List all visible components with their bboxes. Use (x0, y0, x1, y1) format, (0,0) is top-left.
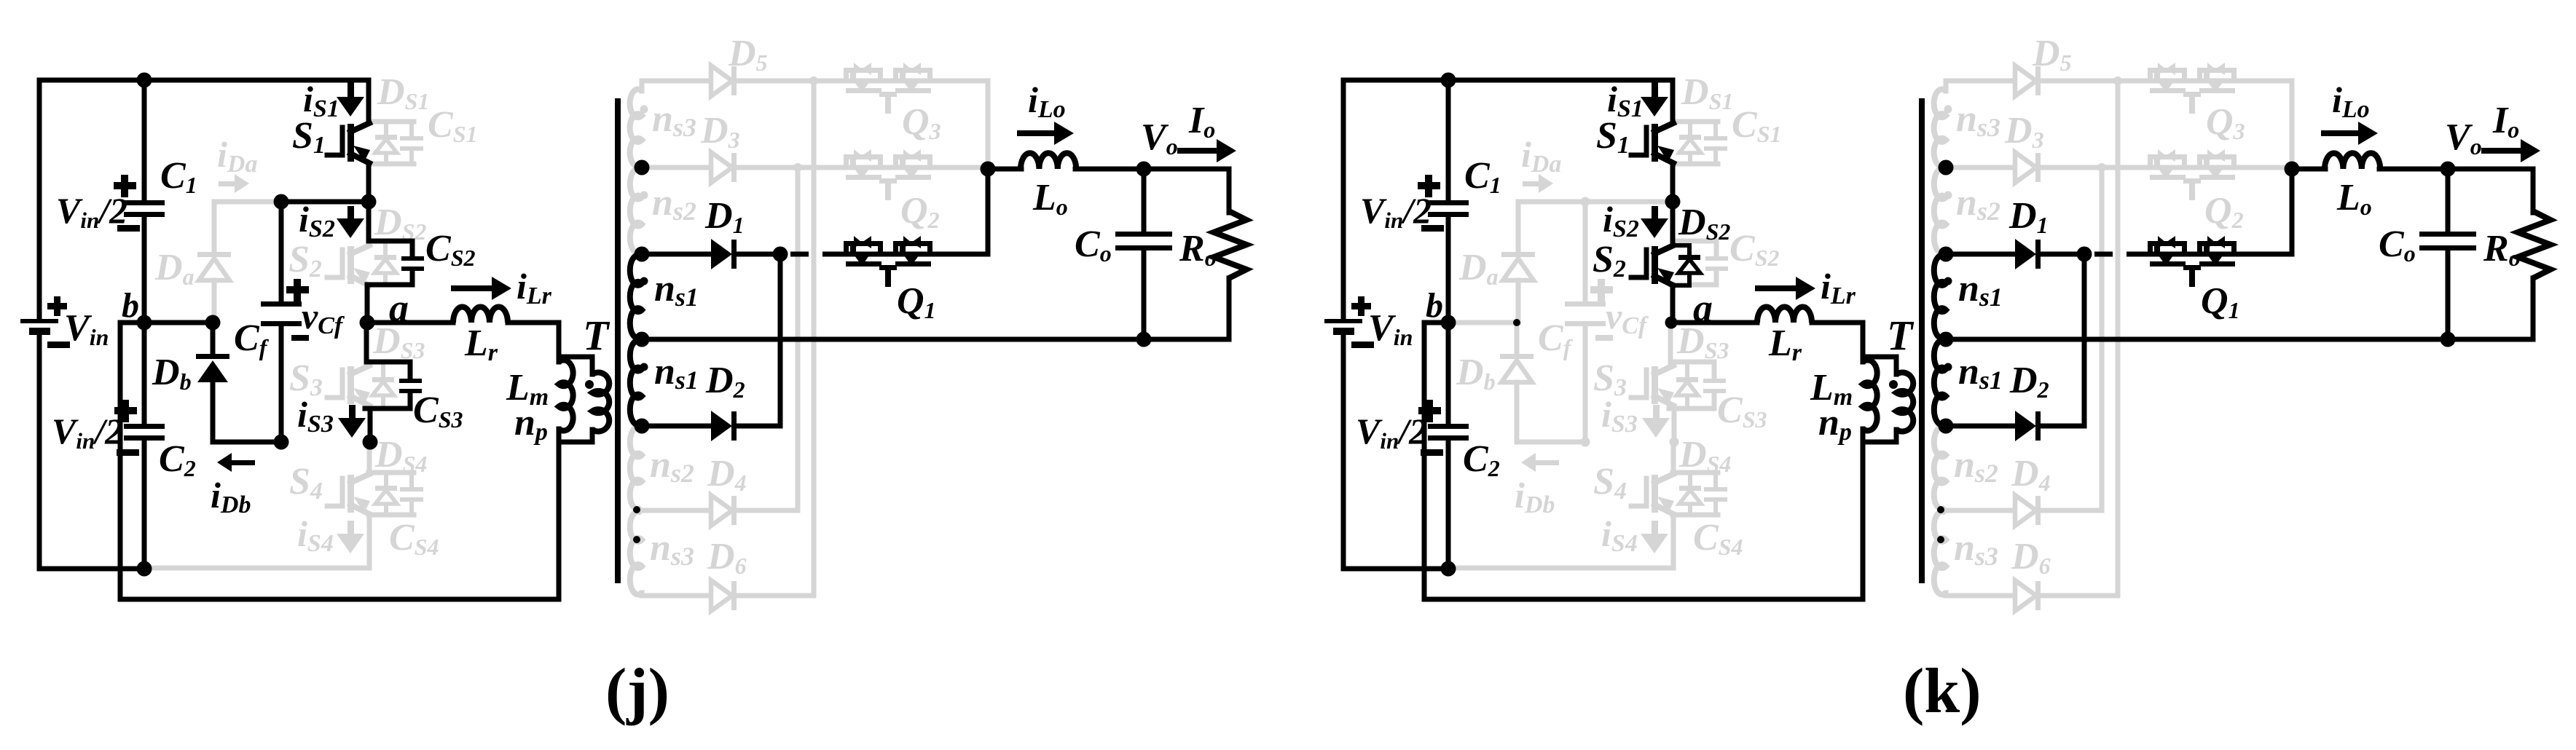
label Db j (152, 352, 192, 395)
label C2 k (1463, 438, 1500, 481)
label Q1 k (2201, 280, 2240, 323)
current arrow iS3 j (338, 405, 366, 438)
wire gray bus D5-D6 j (812, 81, 817, 596)
diode Da j (197, 202, 281, 323)
current arrow iS2 j (337, 206, 364, 238)
transistor S3 j (327, 366, 370, 406)
inductor Lr j (453, 307, 508, 323)
label T j (583, 312, 610, 359)
node center tap k (1939, 332, 1954, 347)
wire D2 to D1 vertical k (2082, 254, 2087, 426)
polarity dot ns1 lower j (640, 363, 648, 371)
transistor S2 j (327, 245, 370, 285)
current arrow iS4 k (1641, 521, 1668, 553)
wire Vo to Ro j (1144, 169, 1229, 213)
diode Db j (196, 323, 281, 442)
wire to Lo k (2292, 167, 2325, 172)
label Ro j (1179, 228, 1217, 271)
wire Ro bottom k (2531, 278, 2536, 339)
node ns3-ns2 junction j (635, 160, 650, 175)
wire D5 row j (642, 79, 988, 84)
label Lm k (1810, 367, 1853, 411)
wire D6 row j (642, 593, 814, 599)
label ns2 bottom j (650, 444, 694, 488)
wire C1 to b k (1446, 216, 1451, 323)
label D3 j (700, 110, 740, 153)
wire Q1 row j (843, 169, 988, 254)
label CS2 k (1729, 228, 1779, 271)
label ns3 bottom k (1954, 527, 1998, 571)
wire D4 row k (1946, 508, 2102, 513)
label b k (1426, 286, 1443, 325)
snubber cell DS1 CS1 j (369, 122, 423, 164)
label Q2 k (2204, 190, 2244, 233)
label ns3 bottom j (650, 527, 694, 571)
wire C1 branch upper k (1446, 80, 1451, 202)
wire S3 drain k (1668, 323, 1673, 362)
label ns2 bottom k (1954, 444, 1998, 488)
wire left rail upper k (1341, 80, 1346, 319)
transistor S1 k (1631, 123, 1674, 202)
current arrow iLo j (1017, 122, 1074, 145)
battery Vin k (1324, 296, 1374, 348)
label CS3 k (1717, 390, 1767, 433)
label CS1 j (428, 104, 477, 147)
svg-text:(k): (k) (1903, 656, 1982, 727)
wire S4 source k (1448, 514, 1673, 568)
wire b row left k (1424, 320, 1448, 325)
current arrow iS3 k (1642, 405, 1670, 438)
label ns1 upper k (1958, 268, 2003, 312)
switch Q3 k (2148, 63, 2237, 114)
label iS3 k (1601, 394, 1638, 438)
wire D2 to D1 vertical j (778, 254, 783, 426)
node Q2 left junction j (793, 163, 802, 172)
polarity dot ns1 lower k (1944, 363, 1952, 371)
label C2 j (159, 438, 196, 481)
label iS1 j (303, 79, 339, 122)
wire C2 branch k (1446, 323, 1451, 425)
label CS4 j (389, 517, 439, 560)
switch Q1 k (2148, 236, 2237, 287)
label Q3 k (2206, 101, 2245, 144)
label DS3 k (1676, 320, 1729, 363)
wire top rail k (1343, 80, 1673, 123)
node D1 D2 junction k (2077, 247, 2092, 262)
transistor S3 k (1631, 366, 1674, 406)
wire Cf node row j (281, 200, 369, 205)
node S1 source j (361, 194, 377, 210)
label Lr j (464, 323, 498, 366)
node S3 source k (1670, 438, 1679, 447)
wire C2 to bottom j (142, 440, 147, 569)
label CS1 k (1732, 104, 1781, 147)
svg-text:T: T (1887, 312, 1915, 359)
transformer core k (1919, 98, 1925, 583)
label Q1 j (897, 280, 936, 323)
diode Da k (1501, 202, 1585, 323)
label D5 j (728, 33, 768, 76)
label ns2 top j (652, 182, 696, 226)
label Vin/2 upper j (56, 190, 127, 233)
label D3 k (2004, 110, 2044, 153)
current arrow Io k (2481, 139, 2540, 162)
capacitor Co j (1115, 169, 1172, 339)
wire S2 drain k (1670, 202, 1676, 245)
node ns3-ns2 junction k (1939, 160, 1954, 175)
label Io j (1188, 100, 1215, 143)
wire to Lo j (988, 167, 1021, 172)
node Vo j (1136, 162, 1152, 177)
label Vo j (1141, 117, 1178, 159)
node junction bottom C2 j (137, 561, 152, 577)
label Vin/2 lower k (1356, 411, 1427, 454)
label b j (122, 286, 139, 325)
node ns1 top junction j (635, 247, 650, 262)
switch Q2 j (844, 149, 932, 200)
node Cf top j (274, 194, 289, 210)
wire C2 to bottom k (1446, 440, 1451, 569)
node Db top j (205, 315, 221, 331)
winding ns3 bottom j (630, 511, 642, 596)
label Db k (1456, 352, 1496, 395)
diode D3 j (711, 152, 737, 183)
label S4 j (289, 461, 323, 505)
label iLr k (1821, 266, 1856, 309)
current arrow iS2 k (1641, 206, 1668, 238)
node S1 source k (1665, 194, 1681, 210)
winding ns2 top k (1934, 169, 1946, 253)
label Cf k (1538, 317, 1574, 360)
label D2 j (705, 360, 745, 403)
label iS1 k (1607, 79, 1644, 122)
winding ns3 top k (1934, 89, 1946, 166)
diode D3 k (2015, 152, 2041, 183)
label iS3 j (297, 394, 334, 438)
node a j (360, 315, 375, 331)
node Q3 left junction j (809, 76, 818, 85)
snubber cell DS1 CS1 k (1673, 122, 1727, 164)
current arrow iLr j (451, 277, 511, 300)
label np k (1818, 402, 1852, 446)
wire np branch bottom j (559, 430, 592, 442)
wire np branch bottom k (1863, 430, 1896, 442)
label Da j (154, 247, 195, 290)
label S1 k (1596, 115, 1630, 159)
label iS4 k (1601, 513, 1638, 557)
label Lo k (2336, 177, 2372, 220)
wire S4 drain j (367, 442, 372, 474)
wire ns3 top corner j (640, 81, 645, 91)
caption (k) (1903, 656, 1982, 727)
wire C1 to b j (142, 216, 147, 323)
diode Db k (1500, 323, 1585, 442)
node D1 D2 junction j (773, 247, 788, 262)
current arrow iDa j (219, 174, 249, 193)
current arrow Io j (1177, 139, 1236, 162)
wire D4 row j (642, 508, 798, 513)
label iDa k (1521, 134, 1561, 178)
wire C1 branch upper j (142, 80, 147, 202)
wire dashed link j (790, 252, 843, 257)
capacitor C2 j (114, 400, 165, 456)
diode D1 j (711, 239, 737, 269)
label Vin j (64, 307, 109, 350)
label Cf j (234, 317, 270, 360)
node junction top C1 j (137, 73, 152, 88)
wire output return bus k (1946, 337, 2533, 342)
diode D2 j (711, 411, 737, 441)
battery Vin j (20, 296, 70, 348)
polarity dot ns2 bottom k (1937, 506, 1944, 513)
wire Lm to return j (557, 429, 562, 599)
wire D6 row k (1946, 593, 2118, 599)
wire b row left j (120, 320, 144, 325)
label DS2 k (1678, 202, 1730, 245)
caption (j) (605, 656, 669, 727)
label DS1 k (1681, 71, 1733, 114)
wire b to Db k (1448, 320, 1517, 325)
diode D2 k (2015, 411, 2041, 441)
wire ns3 top corner k (1944, 81, 1949, 91)
wire S3 drain j (364, 323, 369, 362)
label vCf j (302, 296, 345, 339)
node Lo input k (2285, 162, 2300, 177)
capacitor CS2 path j (367, 241, 424, 323)
wire left rail lower j (39, 335, 144, 569)
winding ns2 bottom k (1934, 427, 1946, 510)
winding ns1 upper j (630, 256, 642, 339)
diode D6 j (711, 580, 737, 611)
node Db top k (1513, 319, 1520, 326)
label iS4 j (297, 513, 334, 557)
wire D5 row k (1946, 79, 2292, 84)
polarity dot ns2 bottom j (633, 506, 640, 513)
wire Lr to Lm k (1812, 323, 1863, 362)
wire Q1 row k (2147, 169, 2292, 254)
label D2 k (2009, 360, 2049, 403)
label iS2 k (1603, 199, 1639, 242)
diode D4 j (711, 495, 737, 526)
label iDa j (217, 134, 257, 178)
label Da k (1458, 247, 1499, 290)
inductor Lr k (1757, 307, 1812, 323)
label Q3 j (902, 101, 941, 144)
diode D6 k (2015, 580, 2041, 611)
capacitor Cf j (261, 202, 309, 442)
diode DS3 k (1676, 362, 1698, 408)
wire top rail j (39, 80, 369, 123)
winding ns2 top j (630, 169, 642, 253)
wire a to Lr k (1671, 320, 1757, 325)
label Vin/2 upper k (1360, 190, 1432, 233)
wire output return bus j (642, 337, 1229, 342)
label D6 k (2011, 536, 2051, 579)
label iLr j (517, 266, 552, 309)
wire C2 branch j (142, 323, 147, 425)
label CS2 j (425, 228, 475, 271)
node Cf bottom k (1581, 438, 1590, 447)
label Q2 j (900, 190, 940, 233)
wire Vo to Ro k (2448, 169, 2533, 213)
transistor S4 k (1631, 474, 1674, 514)
label DS4 k (1678, 434, 1731, 477)
label ns1 lower j (654, 351, 699, 395)
wire S4 drain k (1671, 442, 1676, 474)
label Io k (2492, 100, 2519, 143)
diode DS2 k (1673, 245, 1700, 285)
svg-text:b: b (122, 286, 139, 325)
node Lo input j (981, 162, 996, 177)
node b j (137, 315, 152, 331)
node Q2 left junction k (2097, 163, 2106, 172)
wire np branch top j (559, 357, 592, 374)
switch Q2 k (2148, 149, 2237, 200)
wire Ro bottom j (1227, 278, 1232, 339)
wire Lo to Vo k (2379, 167, 2448, 172)
current arrow iS1 k (1641, 82, 1668, 117)
label Co k (2379, 224, 2416, 267)
wire Cf node row k (1585, 200, 1673, 205)
label DS4 j (374, 434, 427, 477)
label DS1 j (377, 71, 429, 114)
node Vo k (2440, 162, 2456, 177)
winding ns2 bottom j (630, 427, 642, 510)
capacitor C2 k (1418, 400, 1469, 456)
snubber cell DS4 CS4 k (1673, 473, 1727, 515)
winding np k (1896, 373, 1913, 432)
polarity dot ns2 top j (640, 192, 648, 200)
current arrow iDa k (1523, 174, 1553, 193)
transistor S1 j (327, 123, 370, 202)
current arrow iDb j (217, 453, 255, 472)
transistor S2 k (1631, 245, 1674, 285)
label S1 j (292, 115, 326, 159)
current arrow iDb k (1521, 453, 1559, 472)
inductor Lm j (559, 360, 573, 431)
wire Lm to return k (1861, 429, 1866, 599)
winding np j (592, 373, 609, 432)
polarity dot ns2 top k (1944, 192, 1952, 200)
polarity dot ns3 top k (1944, 106, 1952, 114)
label iLo k (2332, 79, 2370, 123)
inductor Lm k (1863, 360, 1877, 431)
polarity dot np k (1889, 380, 1898, 389)
winding ns3 top j (630, 90, 642, 167)
label DS2 j (374, 202, 426, 245)
wire D1 row k (1946, 252, 2084, 257)
wire Lr to Lm j (508, 323, 559, 362)
label iDb k (1515, 475, 1555, 518)
svg-text:b: b (1426, 286, 1443, 325)
label S3 k (1593, 358, 1627, 401)
node Cf bottom j (274, 435, 289, 450)
diode D4 k (2015, 495, 2041, 526)
winding ns1 upper k (1934, 256, 1946, 339)
label ns3 top k (1956, 98, 2000, 142)
wire gray bus D5-D6 k (2116, 81, 2121, 596)
label S3 j (289, 358, 323, 401)
label D4 k (2011, 453, 2051, 496)
capacitor Co k (2419, 169, 2476, 339)
capacitor Cf k (1565, 202, 1613, 442)
capacitor CS2 path k (1671, 241, 1728, 285)
label ns3 top j (652, 98, 696, 142)
current arrow iS4 j (337, 521, 364, 553)
wire left rail lower k (1343, 335, 1448, 569)
polarity dot ns3 top j (640, 106, 648, 114)
label D6 j (707, 536, 747, 579)
node ns1 bottom junction k (1939, 419, 1954, 434)
wire Q3 to output vertical j (986, 81, 991, 169)
diode DS2 j (374, 241, 396, 285)
label T k (1887, 312, 1915, 359)
svg-text:(j): (j) (605, 656, 669, 727)
transformer core j (615, 98, 621, 583)
label Vin k (1368, 307, 1413, 350)
node Co bottom k (2440, 332, 2456, 347)
label iS2 j (299, 199, 335, 242)
node Cf top k (1581, 197, 1590, 207)
capacitor C1 k (1418, 175, 1469, 232)
label D5 k (2032, 33, 2072, 76)
node S3 source j (363, 435, 378, 450)
label a k (1693, 286, 1713, 330)
label Vo k (2445, 117, 2482, 159)
node ns1 top junction k (1939, 247, 1954, 262)
label Ro k (2483, 228, 2521, 271)
label S4 k (1593, 461, 1627, 505)
wire D3 row k (1946, 165, 2292, 170)
switch Q1 j (844, 236, 932, 287)
label ns1 upper j (654, 268, 699, 312)
wire Lo to Vo j (1075, 167, 1144, 172)
svg-text:T: T (583, 312, 610, 359)
label iLo j (1028, 79, 1066, 123)
switch Q3 j (844, 63, 932, 114)
label S2 k (1593, 239, 1626, 283)
capacitor CS3 path k (1669, 362, 1726, 442)
label S2 j (288, 239, 322, 283)
label np j (514, 402, 548, 446)
label ns1 lower k (1958, 351, 2003, 395)
wire primary return j (120, 323, 559, 599)
transistor S4 j (327, 474, 370, 514)
winding ns3 bottom k (1934, 511, 1946, 596)
node b k (1441, 315, 1456, 331)
polarity dot ns1 upper k (1944, 277, 1952, 285)
wire S2 drain j (366, 202, 372, 241)
capacitor CS3 path j (365, 362, 422, 442)
label D1 j (704, 195, 745, 238)
diode D5 j (711, 66, 737, 96)
wire S2 source k (1670, 285, 1676, 323)
label vCf k (1606, 296, 1649, 339)
polarity dot ns3 bottom k (1937, 536, 1944, 543)
wire primary return k (1424, 323, 1863, 599)
label ns2 top k (1956, 182, 2000, 226)
label C1 j (160, 155, 197, 198)
diode D1 k (2015, 239, 2041, 269)
label Lm j (506, 367, 549, 411)
node Co bottom j (1136, 332, 1152, 347)
wire D3 row j (642, 165, 988, 170)
capacitor C1 j (114, 175, 165, 232)
node Q3 left junction k (2113, 76, 2122, 85)
label a j (389, 286, 409, 330)
current arrow iLo k (2321, 122, 2378, 145)
current arrow iLr k (1755, 277, 1815, 300)
